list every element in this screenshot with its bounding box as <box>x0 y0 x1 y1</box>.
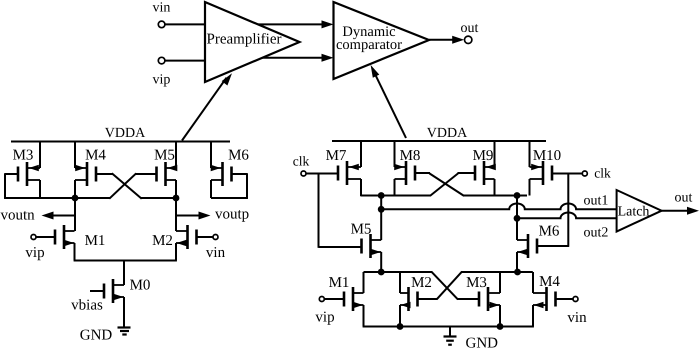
svg-text:vin: vin <box>206 245 226 261</box>
wire vbias lead <box>71 291 104 314</box>
svg-text:voutn: voutn <box>1 208 36 224</box>
wire M6 drain down <box>210 180 212 198</box>
svg-text:vip: vip <box>315 310 334 326</box>
svg-text:M1: M1 <box>85 233 106 249</box>
wire M3 drain down <box>39 180 41 198</box>
wire common source to tail <box>74 261 177 286</box>
transistor M6 <box>211 148 250 187</box>
svg-text:GND: GND <box>80 328 113 344</box>
svg-text:M3: M3 <box>13 148 34 164</box>
svg-text:M2: M2 <box>411 275 432 291</box>
transistor M5 <box>154 148 177 187</box>
svg-text:out: out <box>675 191 693 206</box>
terminal clk (right) <box>552 166 611 181</box>
node out (top output label) <box>461 21 479 36</box>
wire M4 source to VDDA <box>74 142 76 169</box>
terminal clk (left) <box>293 154 339 177</box>
svg-text:VDDA: VDDA <box>105 126 146 141</box>
wire M9 source to VDDA <box>494 141 496 167</box>
node vip (bottom input label) <box>153 73 171 88</box>
wire M3 source to VDDA <box>39 142 41 169</box>
wire M4 drain to voutn node <box>74 180 76 198</box>
terminal vip (left circuit) <box>25 235 55 262</box>
transistor M6 <box>517 224 560 259</box>
wire M9 gate cross-couple <box>361 173 475 196</box>
ground (right circuit) <box>444 327 499 352</box>
wire M1 source down <box>74 243 76 261</box>
node A junction (M5 source) <box>378 269 385 276</box>
wire node A (M1/M2 drains) <box>364 271 433 273</box>
wire M10 source to VDDA <box>529 141 531 167</box>
wire arrow from comparator circuit to Dynamic comparator block <box>371 65 406 138</box>
svg-text:M6: M6 <box>228 148 249 164</box>
wire node down to M5 drain <box>380 196 382 241</box>
wire M1 source down <box>363 305 365 327</box>
node junction M2 source <box>397 323 404 330</box>
svg-text:out1: out1 <box>584 194 609 209</box>
wire <box>165 23 205 25</box>
wire M2 source down <box>175 243 177 261</box>
transistor M3 <box>13 148 40 187</box>
node junction M9/M10 drains <box>514 192 521 199</box>
svg-text:M3: M3 <box>466 275 487 291</box>
wire voutn node down to M1 drain <box>74 198 76 231</box>
transistor M1 <box>329 275 364 311</box>
transistor M1 <box>55 225 105 249</box>
wire preamp to comparator (lower) <box>262 54 333 62</box>
svg-text:M5: M5 <box>351 222 372 238</box>
wire M9 drain down <box>494 179 496 196</box>
node voutn (output arrow) <box>1 208 76 224</box>
svg-text:voutp: voutp <box>215 207 249 223</box>
wire M1 drain up to node A <box>363 272 365 293</box>
node out1 junction <box>378 206 385 213</box>
wire node B cross-couple to M2 gate <box>418 272 463 300</box>
svg-text:vin: vin <box>153 1 171 16</box>
ground (left circuit) <box>80 328 131 344</box>
wire M0 source to ground <box>123 297 125 328</box>
terminal vin (left circuit) <box>197 235 226 262</box>
wire clk down to M6 gate (hops over out1 out2) <box>538 173 569 247</box>
node voutn junction <box>72 195 79 202</box>
node junction M7/M8 drains <box>378 192 385 199</box>
wire clk down to M5 gate <box>319 174 362 248</box>
transistor M4 <box>75 148 106 187</box>
svg-text:vip: vip <box>153 73 171 88</box>
transistor M2 <box>400 275 432 311</box>
node out2 junction <box>514 215 521 222</box>
op-amp block Dynamic comparator <box>334 2 430 79</box>
power rail VDDA (left circuit) <box>11 126 230 142</box>
transistor M2 <box>152 225 196 249</box>
svg-text:vin: vin <box>567 310 587 326</box>
svg-text:M0: M0 <box>130 278 151 294</box>
svg-text:M8: M8 <box>400 148 421 164</box>
svg-text:M4: M4 <box>85 148 106 164</box>
svg-text:M7: M7 <box>326 148 347 164</box>
node vin (top input label) <box>153 1 171 16</box>
transistor M7 <box>326 148 361 185</box>
node out2 wire to latch (hops at 568) <box>517 213 617 241</box>
wire M3 drain up to node B <box>499 272 501 293</box>
svg-text:M6: M6 <box>539 224 560 240</box>
wire M4 drain up to node B <box>532 272 534 293</box>
wire <box>165 60 205 62</box>
wire M8 gate cross-couple <box>415 173 527 196</box>
wire M6 source to VDDA <box>210 142 212 169</box>
transistor M0 <box>104 278 150 304</box>
wire ground rail <box>363 326 534 328</box>
transistor M10 <box>530 148 562 185</box>
terminal vip <box>158 57 165 64</box>
svg-text:M9: M9 <box>473 148 494 164</box>
wire M4 gate cross-couple to voutp node <box>96 173 176 198</box>
wire latch output <box>662 207 699 215</box>
wire M8 drain down <box>394 179 396 196</box>
wire M2 drain up to node A <box>399 272 401 293</box>
svg-text:GND: GND <box>466 336 499 349</box>
node B junction (M6 source) <box>514 269 521 276</box>
wire arrow from preamp circuit to Preamplifier block <box>182 73 232 140</box>
transistor M8 <box>394 148 420 185</box>
svg-text:vbias: vbias <box>71 298 103 314</box>
wire M5 gate cross-couple to voutn node <box>75 173 157 198</box>
wire M7 source to VDDA <box>360 141 362 167</box>
transistor M9 <box>473 148 496 185</box>
terminal vin <box>158 21 165 28</box>
svg-text:Preamplifier: Preamplifier <box>207 32 282 48</box>
transistor M4 <box>533 274 560 311</box>
node voutp junction <box>173 195 180 202</box>
wire M8 source to VDDA <box>394 141 396 167</box>
wire M3 gate to drain (diode connection) <box>4 173 75 199</box>
svg-text:M10: M10 <box>533 148 561 164</box>
wire M6 gate to drain (diode connection) <box>211 173 248 199</box>
wire M3 source down <box>499 305 501 327</box>
wire M5 drain to voutp node <box>175 180 177 198</box>
op-amp block Preamplifier <box>205 2 300 82</box>
svg-text:M1: M1 <box>329 275 350 291</box>
node out1 wire to latch (hops at 517 and 568) <box>381 194 616 210</box>
svg-text:clk: clk <box>594 166 611 181</box>
wire comparator output <box>429 36 464 44</box>
wire node A cross-couple to M3 gate <box>431 272 478 300</box>
wire M4 source down <box>532 305 534 327</box>
svg-text:Latch: Latch <box>618 205 650 220</box>
svg-text:out2: out2 <box>584 226 609 241</box>
wire node down to M6 drain <box>516 196 518 241</box>
wire M10 drain down <box>529 179 531 196</box>
wire voutp node down to M2 drain <box>175 198 177 231</box>
svg-text:out: out <box>461 21 479 36</box>
terminal vin (right circuit) <box>556 297 588 327</box>
svg-text:M5: M5 <box>154 148 175 164</box>
svg-text:vip: vip <box>25 245 44 261</box>
terminal vip (right circuit) <box>315 297 344 326</box>
wire M2 source down <box>399 305 401 327</box>
op-amp block Latch <box>617 190 662 232</box>
svg-text:comparator: comparator <box>336 37 402 53</box>
terminal out <box>465 36 472 43</box>
wire node B (M3/M4 drains) <box>461 271 533 273</box>
node voutp (output arrow) <box>176 207 249 223</box>
node out (right output label) <box>675 191 693 206</box>
transistor M3 <box>466 275 500 311</box>
wire preamp to comparator (upper) <box>258 20 334 28</box>
wire M5 source down to node A <box>380 252 382 272</box>
svg-text:M2: M2 <box>152 233 173 249</box>
svg-text:VDDA: VDDA <box>427 126 468 141</box>
power rail VDDA (right circuit) <box>332 126 546 141</box>
transistor M5 <box>351 222 382 259</box>
wire M5 source to VDDA <box>175 142 177 169</box>
wire M6 source down to node B <box>516 252 518 272</box>
svg-text:M4: M4 <box>539 274 560 290</box>
svg-text:clk: clk <box>293 154 310 169</box>
wire M7 drain down <box>360 179 362 196</box>
node junction M3 source <box>497 323 504 330</box>
